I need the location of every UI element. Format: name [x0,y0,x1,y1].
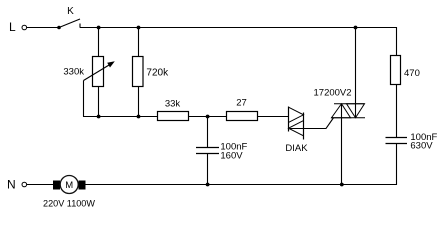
wire: top rail corner down to 470 [396,27,398,56]
svg-text:N: N [7,178,16,192]
wire: bottom rail [86,184,398,186]
node: top rail / triac MT2 [354,26,358,30]
svg-text:DIAK: DIAK [285,143,308,154]
wire: pot wiper down to control rail [83,81,85,117]
wire: top rail [80,27,397,29]
wire: N terminal to motor [27,184,53,186]
resistor 720k [133,57,144,87]
wire: L terminal to switch [27,27,59,29]
motor M [53,176,86,194]
resistor 33k [158,112,189,121]
svg-text:27: 27 [236,98,247,109]
svg-text:33k: 33k [165,99,181,110]
svg-text:K: K [67,6,74,17]
triac 17200V2 [331,104,365,118]
node: control rail / 720k bottom [137,115,141,119]
svg-text:17200V2: 17200V2 [314,88,352,99]
terminal N [7,178,27,192]
svg-text:630V: 630V [410,141,433,152]
node: bottom rail / C1 [206,183,210,187]
node: C1 junction [206,115,210,119]
switch K [57,6,80,29]
svg-text:720k: 720k [146,68,169,79]
wire: 720k top lead [138,28,140,57]
wire: 470 to C2 [396,85,398,138]
wire: C2 to bottom rail [396,144,398,186]
wire: pot bottom lead [98,87,100,117]
wire: control rail left [83,116,158,118]
wire: 33k to 27 [189,116,227,118]
terminal L [9,20,27,34]
potentiometer 330k [84,57,115,87]
resistor 27 [227,112,258,121]
diac DIAK [289,107,304,140]
resistor 470 [391,56,401,85]
svg-text:470: 470 [404,68,420,79]
wire: triac MT2 lead [355,28,357,118]
svg-text:330k: 330k [63,67,84,78]
capacitor C2 100nF 630V [386,138,408,144]
wire: triac MT1 lead [341,104,343,185]
capacitor C1 100nF 160V [196,117,219,185]
wire: 720k bottom lead [138,87,140,117]
node: top rail / 720k branch [137,26,141,30]
wire: pot top lead [98,28,100,57]
wire: 27 to DIAK [258,116,289,118]
node: top rail / pot branch [97,26,101,30]
svg-text:M: M [65,180,73,191]
svg-text:L: L [9,20,16,34]
node: control rail / pot bottom [97,115,101,119]
svg-text:160V: 160V [220,151,243,162]
wire: DIAK to triac gate [290,118,334,129]
svg-text:220V 1100W: 220V 1100W [43,199,95,209]
node: bottom rail / triac MT1 [340,183,344,187]
